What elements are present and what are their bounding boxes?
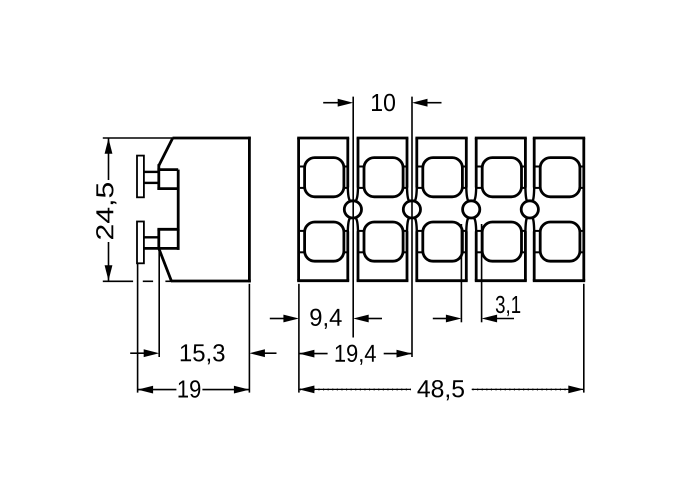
pole 3 lower wire opening [423,222,463,261]
pole 2 upper wire opening [364,158,403,197]
pole segment 3 outline [415,137,467,140]
clamp unit 2 (lower) [157,228,178,231]
dimension 48,5 [299,388,411,390]
dimension 19,4 [299,353,328,355]
funnel curves gap 2 [407,187,409,201]
pole 5 lower wire opening [540,222,580,261]
pole segment 5 outline [533,137,585,140]
pole 4 upper wire opening [482,158,521,197]
pole 4 side ticks [476,166,482,168]
dimension 15,3 [130,352,145,354]
clamp unit 1 (upper) [157,164,160,190]
pole segment 2 outline [357,137,409,140]
pole 5 side ticks [534,166,540,168]
dimension 10 [323,102,339,104]
pole 2 side ticks [358,166,364,168]
pole 5 upper wire opening [540,158,580,197]
pole 1 lower wire opening [305,222,344,261]
pole 4 lower wire opening [482,222,521,261]
dimension 9,4 [270,318,285,320]
dimension 24,5 [108,138,110,180]
top view extension lines [352,97,354,338]
dimension 19 [138,389,177,391]
test port circle 3 [463,201,480,218]
pole 2 lower wire opening [364,222,403,261]
funnel curves gap 4 [525,187,526,201]
pole segment 4 outline [475,137,527,140]
pole 1 side ticks [299,166,305,168]
pole segment 1 outline [297,137,349,140]
test port circle 2 [403,201,420,218]
pole 1 upper wire opening [305,158,344,197]
funnel curves gap 1 [348,187,350,201]
side view body outline [173,137,251,140]
side view extension lines [103,137,173,139]
pole 3 side ticks [417,166,423,168]
dimension 3,1 [433,318,447,320]
pole 3 upper wire opening [423,158,463,197]
funnel curves gap 3 [466,187,468,201]
test port circle 1 [344,201,361,218]
test port circle 4 [521,201,538,218]
